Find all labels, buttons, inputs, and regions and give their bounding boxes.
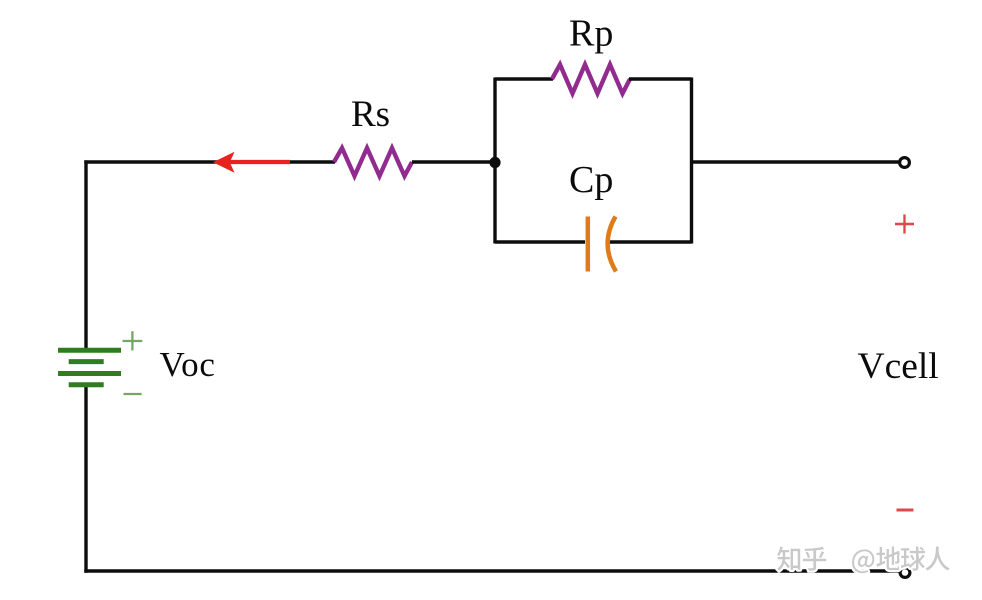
watermark char 球 — [901, 547, 926, 571]
wire bottom horizontal — [84, 569, 899, 572]
watermark char 知 — [777, 547, 800, 571]
capacitor Cp left plate (orange) — [586, 217, 591, 272]
capacitor Cp right plate (orange curved) — [608, 217, 616, 272]
current arrow (red, pointing left) — [213, 152, 290, 173]
watermark char @ — [852, 549, 874, 573]
watermark char 人 — [925, 547, 949, 571]
resistor Rs (purple zigzag) — [334, 148, 412, 176]
watermark char 乎 — [803, 547, 826, 571]
terminal - (open circle) — [900, 568, 910, 578]
watermark 知乎 @地球人 — [777, 547, 950, 574]
battery Voc (green plates) — [58, 350, 121, 385]
label - (red) at output — [897, 509, 914, 512]
terminal + (open circle) — [900, 158, 910, 168]
battery - sign (green) — [124, 393, 142, 395]
resistor Rp (purple zigzag) — [552, 65, 630, 94]
node B junction dot — [489, 157, 500, 168]
svg-text:Cp: Cp — [569, 159, 613, 201]
watermark char 地 — [876, 547, 901, 571]
RC box top edge left segment — [495, 77, 553, 80]
RC box left edge — [493, 78, 496, 244]
svg-text:Rp: Rp — [569, 13, 613, 55]
label + (red) at output — [895, 215, 914, 234]
svg-text:Voc: Voc — [160, 345, 216, 384]
RC box right edge — [690, 78, 693, 244]
RC box bottom edge left segment — [495, 240, 585, 243]
wire left vertical lower (battery - to bottom) — [84, 386, 87, 573]
svg-text:Vcell: Vcell — [858, 346, 939, 387]
wire box to + terminal — [692, 160, 899, 163]
wire top horizontal (node A to Rs) — [84, 160, 335, 163]
wire Rs to node B — [412, 160, 495, 163]
battery + sign (green) — [123, 331, 143, 350]
RC box bottom edge right segment — [609, 240, 692, 243]
RC box top edge right segment — [629, 77, 692, 80]
svg-text:Rs: Rs — [351, 94, 390, 135]
wire left vertical upper (node A to battery +) — [84, 160, 87, 349]
